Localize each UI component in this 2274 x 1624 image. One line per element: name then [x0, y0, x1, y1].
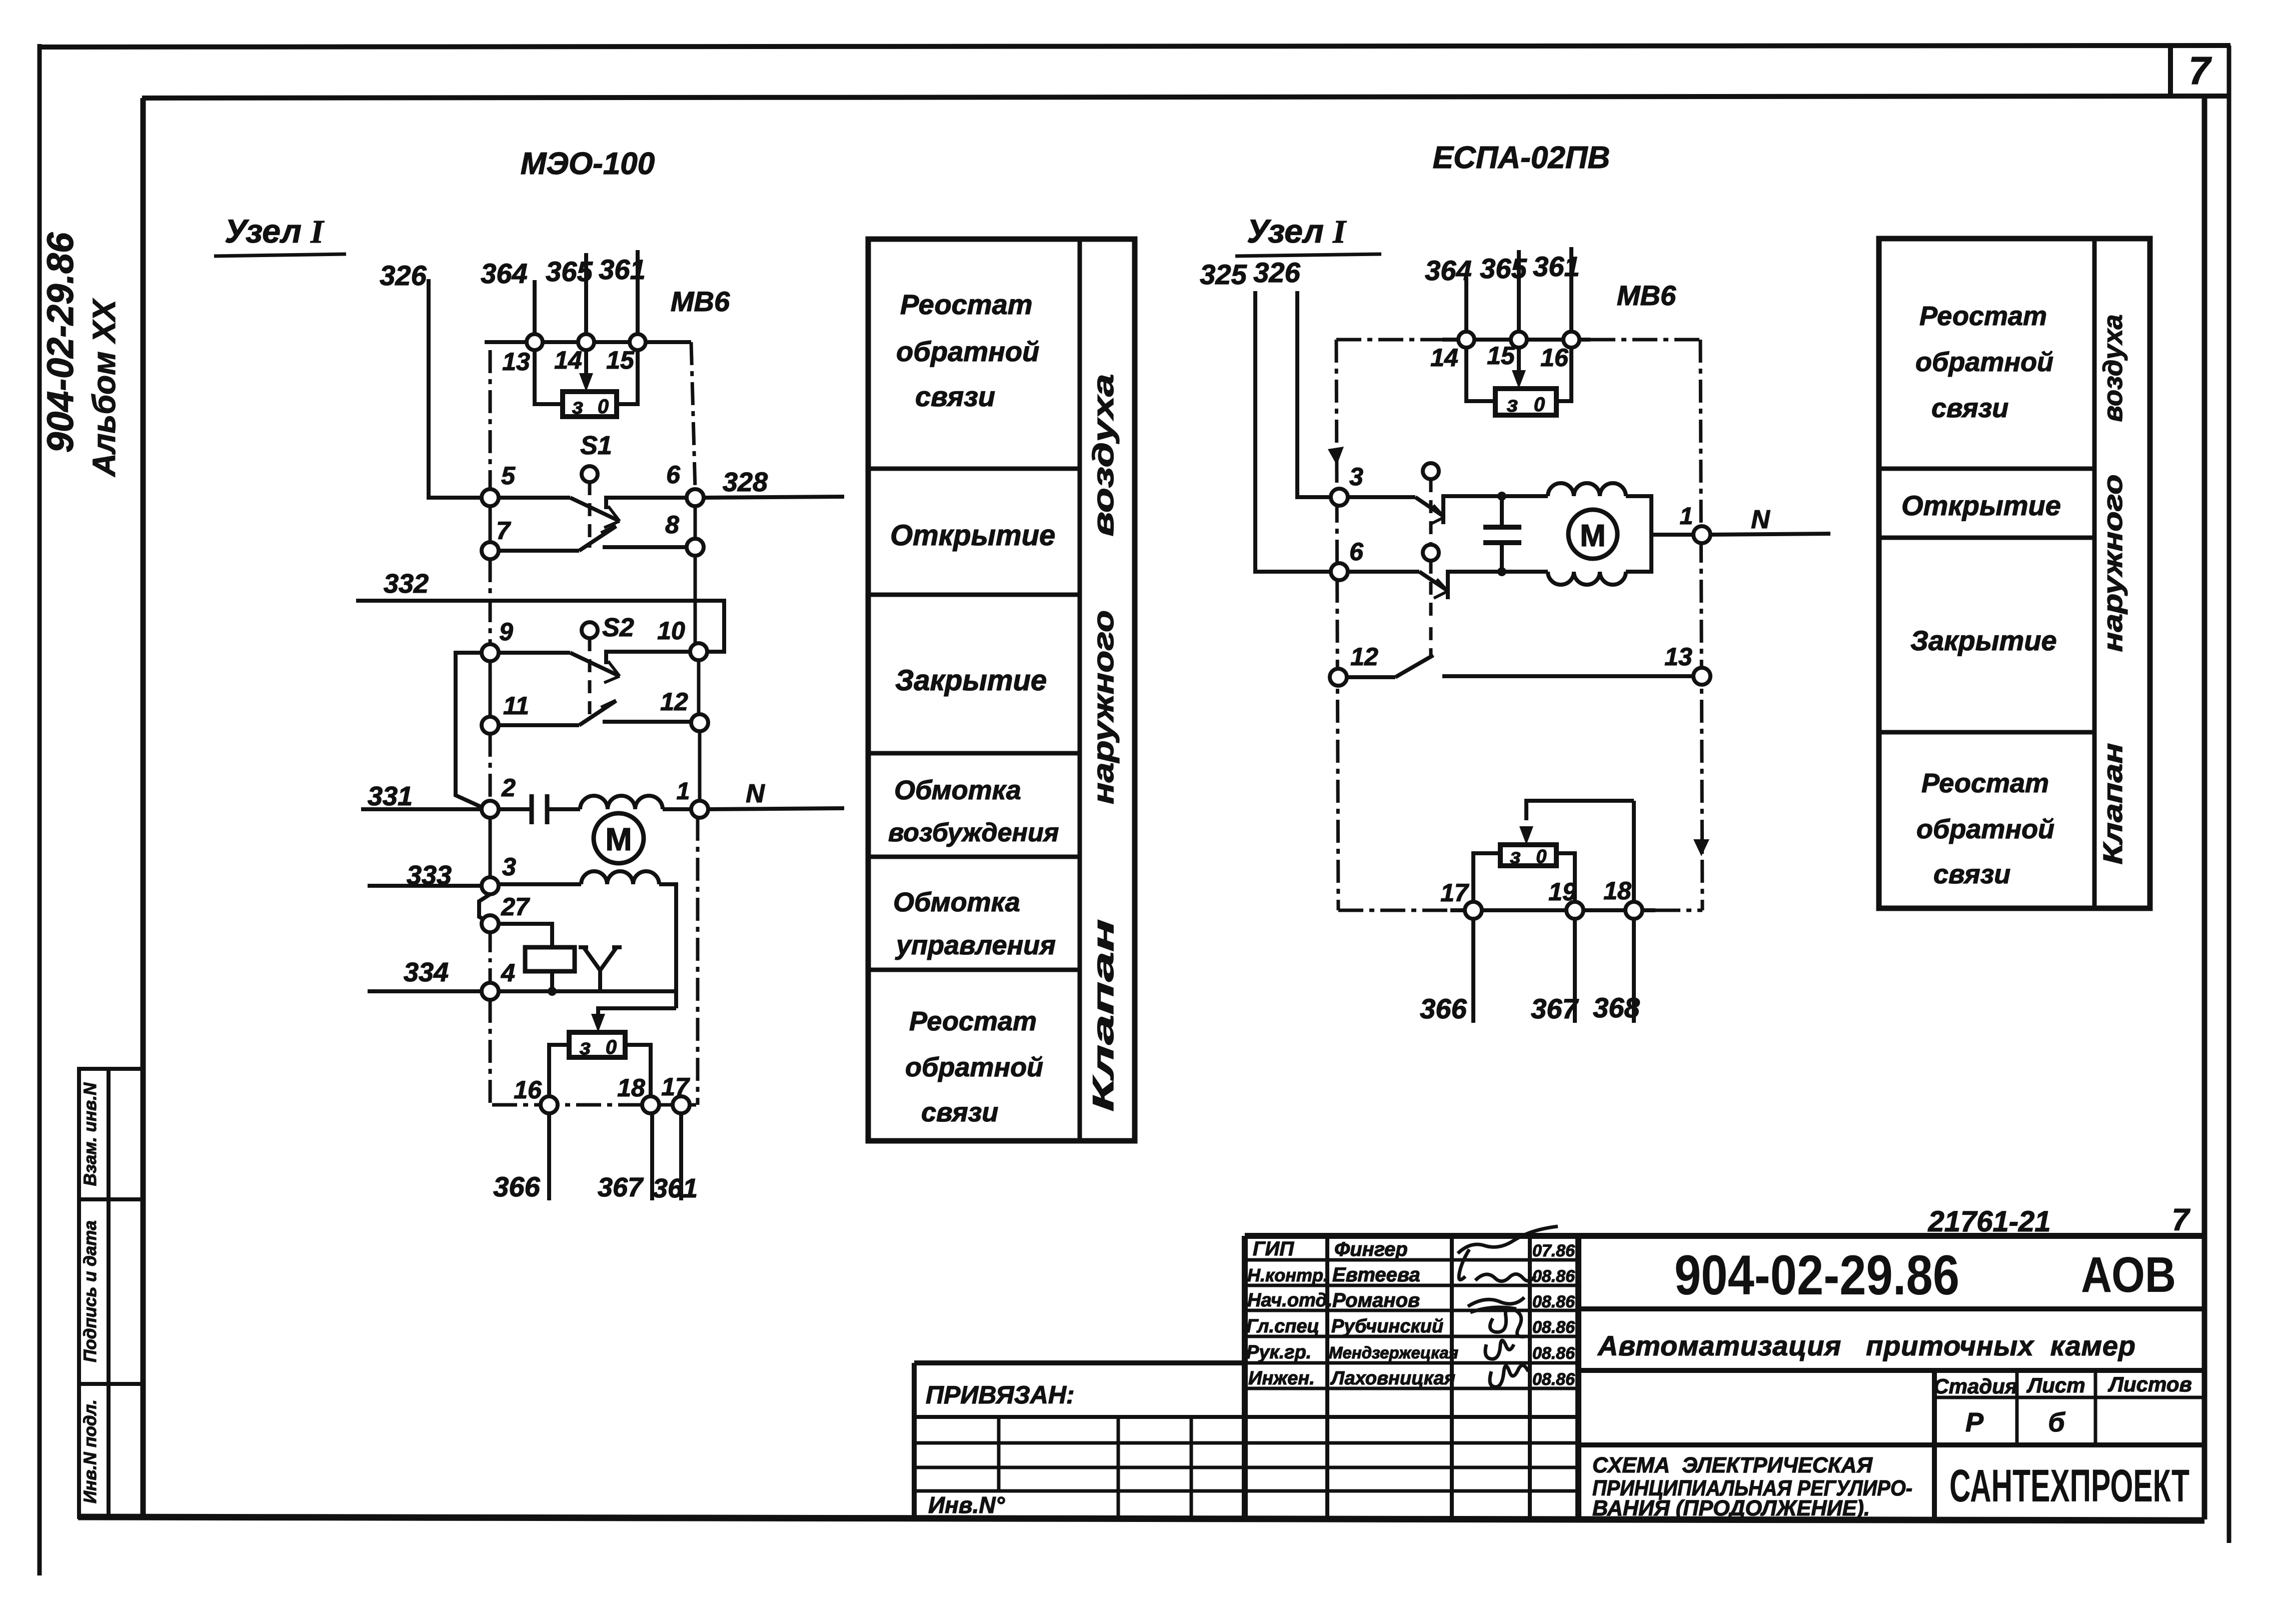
- svg-text:334: 334: [404, 957, 449, 987]
- left legend table frame: [868, 239, 1135, 1141]
- node 17: [673, 1096, 690, 1113]
- rheostat R3 feedback: [1495, 389, 1556, 415]
- sheet outer border top: [38, 46, 2230, 47]
- svg-text:331: 331: [368, 781, 413, 811]
- signature col dividers: [1325, 1236, 1329, 1518]
- capacitor C1: [499, 807, 532, 811]
- stadia row bottom: [1578, 1442, 2204, 1447]
- node 1: [691, 801, 708, 818]
- signature table left edge: [1242, 1236, 1248, 1518]
- tail wire 367r: [1573, 919, 1577, 1023]
- wire 361: [636, 250, 640, 335]
- svg-text:8: 8: [665, 511, 679, 539]
- sheet outer border right: [2227, 46, 2231, 1543]
- svg-text:Фингер: Фингер: [1334, 1238, 1408, 1260]
- svg-text:Мендзержецкая: Мендзержецкая: [1329, 1343, 1458, 1362]
- contact S1b blade: [579, 526, 616, 551]
- svg-text:Обмотка: Обмотка: [893, 887, 1020, 917]
- wire 328: [704, 497, 844, 498]
- svg-text:0: 0: [606, 1036, 617, 1058]
- wire 13 to rheostat R1: [535, 350, 563, 404]
- svg-text:1: 1: [677, 778, 690, 805]
- svg-text:Листов: Листов: [2107, 1372, 2192, 1396]
- inner frame left: [141, 98, 146, 1518]
- switch S1 head: [582, 466, 598, 482]
- svg-text:4: 4: [501, 959, 515, 987]
- svg-text:Инжен.: Инжен.: [1248, 1368, 1315, 1389]
- wire 331: [361, 807, 482, 811]
- jog wire 3 to 27: [479, 894, 490, 922]
- svg-text:Узел I: Узел I: [225, 213, 325, 250]
- enclosure right dash-dot: [1700, 340, 1702, 910]
- node 17r: [1465, 902, 1482, 919]
- terminal strip wire: [1442, 338, 1590, 342]
- wire 18r vertical: [1632, 801, 1636, 902]
- top branch wire: [1443, 494, 1548, 498]
- enclosure bottom dash-dot: [492, 1103, 696, 1107]
- svg-text:17: 17: [1440, 879, 1469, 907]
- wire 4 to winding loop: [499, 989, 676, 993]
- tail wire 368r: [1632, 919, 1636, 1023]
- svg-text:М: М: [1580, 519, 1606, 553]
- svg-text:12: 12: [1350, 643, 1378, 671]
- contact SB1c fixed wire to 13: [1442, 674, 1694, 678]
- svg-text:М: М: [605, 821, 632, 857]
- svg-text:3: 3: [502, 853, 516, 881]
- svg-text:Закрытие: Закрытие: [1910, 625, 2057, 656]
- svg-text:б: б: [2048, 1407, 2065, 1437]
- svg-text:332: 332: [384, 569, 429, 599]
- svg-text:Реостат: Реостат: [900, 289, 1033, 320]
- terminal 14r: [1458, 332, 1474, 348]
- svg-text:17: 17: [661, 1073, 690, 1101]
- svg-text:Альбом ХХ: Альбом ХХ: [86, 298, 122, 478]
- enclosure bottom wire: [1450, 908, 1655, 912]
- contact S2b wire from 11: [499, 723, 579, 727]
- terminal 15: [630, 334, 646, 350]
- wire 16r to rheostat R3: [1556, 348, 1571, 401]
- node 13r: [1693, 668, 1710, 685]
- privyazan left edge: [912, 1363, 917, 1518]
- wire node9 branch: [456, 653, 484, 808]
- wire N: [708, 808, 844, 809]
- svg-text:1: 1: [1680, 503, 1693, 530]
- wire N (right): [1710, 534, 1830, 535]
- node 19r: [1566, 902, 1583, 919]
- contact SB1a fixed: [1443, 496, 1504, 524]
- privyazan col dividers: [997, 1417, 1001, 1491]
- junction dot relay: [548, 987, 557, 996]
- contact S2b blade: [579, 701, 616, 725]
- svg-text:СХЕМА ЭЛЕКТРИЧЕСКАЯ: СХЕМА ЭЛЕКТРИЧЕСКАЯ: [1592, 1453, 1873, 1477]
- contact S1b wire from 7: [499, 549, 579, 553]
- svg-text:12: 12: [660, 688, 688, 716]
- svg-text:7: 7: [496, 517, 511, 545]
- contact SB1a wire: [1348, 495, 1415, 499]
- svg-text:з: з: [572, 394, 583, 419]
- svg-text:7: 7: [2172, 1203, 2190, 1237]
- svg-text:08.86: 08.86: [1532, 1318, 1575, 1337]
- svg-text:5: 5: [501, 462, 516, 490]
- svg-text:08.86: 08.86: [1532, 1267, 1575, 1286]
- right part divider: [1932, 1370, 1937, 1518]
- contact SB1b wire: [1348, 570, 1419, 574]
- svg-text:Р: Р: [1965, 1407, 1984, 1437]
- svg-text:0: 0: [1534, 394, 1545, 416]
- wire 14 wiper arrow: [584, 350, 588, 380]
- node 18r: [1625, 902, 1642, 919]
- svg-text:Лист: Лист: [2026, 1373, 2085, 1397]
- sheet outer border left: [38, 44, 42, 1575]
- node 18: [642, 1096, 659, 1113]
- svg-text:367: 367: [598, 1172, 644, 1202]
- node 12r: [1330, 669, 1347, 686]
- wire 365r: [1517, 250, 1521, 333]
- svg-text:19: 19: [1548, 878, 1576, 906]
- svg-text:325: 325: [1200, 259, 1247, 290]
- svg-text:11: 11: [503, 692, 529, 720]
- svg-text:10: 10: [657, 617, 685, 645]
- junction dot top: [1497, 492, 1506, 501]
- loop to node 1r: [1626, 496, 1651, 572]
- svg-text:2: 2: [501, 774, 516, 802]
- svg-text:366: 366: [493, 1171, 540, 1202]
- svg-text:Автоматизация приточных кам: Автоматизация приточных камер: [1597, 1330, 2135, 1361]
- contact SB1a blade: [1415, 497, 1443, 516]
- terminal 14: [578, 334, 594, 350]
- svg-text:15: 15: [606, 346, 635, 374]
- node 8: [687, 539, 704, 556]
- contact SB1b blade: [1419, 572, 1447, 590]
- field winding L1: [580, 796, 663, 809]
- wire 15r wiper arrow: [1517, 348, 1521, 377]
- wiper loop rheostat R4: [1526, 801, 1634, 820]
- contact S2a fixed: [606, 652, 691, 664]
- svg-text:Реостат: Реостат: [909, 1006, 1037, 1036]
- svg-text:Гл.спец: Гл.спец: [1246, 1316, 1319, 1337]
- svg-text:326: 326: [1253, 257, 1300, 288]
- contact S2a wire from 9: [499, 651, 570, 655]
- inner frame bottom: [78, 1517, 2204, 1520]
- wire 364r: [1464, 278, 1468, 333]
- svg-text:Открытие: Открытие: [1901, 490, 2061, 521]
- title block grid: [914, 1236, 2204, 1518]
- wire 17r to rheostat R4: [1473, 853, 1500, 902]
- contact SB1c wire: [1347, 675, 1395, 679]
- terminal strip dash-dot right: [1590, 338, 1700, 342]
- svg-text:Реостат: Реостат: [1919, 301, 2047, 331]
- svg-text:18: 18: [617, 1074, 645, 1102]
- svg-text:Клапан: Клапан: [1087, 919, 1120, 1112]
- svg-text:904-02-29.86: 904-02-29.86: [40, 232, 81, 453]
- underline of Узел I: [214, 254, 346, 256]
- wire 334: [368, 989, 482, 993]
- enclosure bottom dash-dot right: [1655, 909, 1702, 912]
- svg-text:Открытие: Открытие: [890, 519, 1055, 552]
- switch mid head SB1b: [1423, 545, 1439, 561]
- svg-text:з: з: [1507, 392, 1518, 417]
- node 6: [687, 489, 704, 506]
- svg-text:Рубчинский: Рубчинский: [1331, 1316, 1443, 1337]
- signature squiggles: [1458, 1226, 1558, 1387]
- svg-text:14: 14: [1430, 344, 1458, 372]
- svg-text:связи: связи: [921, 1097, 998, 1127]
- node 5: [482, 489, 499, 506]
- row under doc code: [1578, 1306, 2204, 1311]
- svg-text:328: 328: [723, 467, 768, 497]
- node 11: [482, 717, 499, 734]
- svg-text:16: 16: [1540, 344, 1569, 372]
- control winding L2: [499, 882, 581, 886]
- svg-text:САНТЕХПРОЕКТ: САНТЕХПРОЕКТ: [1949, 1460, 2189, 1511]
- junction dot bottom: [1497, 567, 1506, 576]
- svg-text:Клапан: Клапан: [2098, 743, 2128, 865]
- svg-text:08.86: 08.86: [1532, 1344, 1575, 1363]
- node 3r: [1331, 489, 1348, 506]
- svg-text:Лаховницкая: Лаховницкая: [1330, 1368, 1455, 1389]
- wire 333: [368, 884, 483, 888]
- svg-text:обратной: обратной: [1915, 347, 2053, 377]
- svg-text:N: N: [746, 779, 765, 808]
- contact SB1c blade: [1395, 655, 1433, 677]
- underline of Узел I (right): [1235, 254, 1381, 256]
- svg-text:ЕСПА-02ПВ: ЕСПА-02ПВ: [1433, 141, 1610, 175]
- contact S1b fixed: [603, 545, 687, 549]
- left axis dash-dot: [489, 350, 492, 489]
- wire 19r to rheostat R4: [1556, 853, 1575, 902]
- left vertical stamp box: [79, 1069, 143, 1517]
- contact S2b fixed: [603, 720, 692, 724]
- wiper loop to rheostat R2: [598, 1008, 676, 1023]
- svg-text:13: 13: [502, 348, 530, 376]
- switch S1 linkage: [588, 482, 592, 548]
- svg-text:воздуха: воздуха: [1087, 374, 1120, 537]
- wire 364: [533, 280, 537, 335]
- node 10: [690, 643, 707, 660]
- svg-text:S2: S2: [602, 613, 634, 642]
- svg-text:Евтеева: Евтеева: [1332, 1264, 1420, 1286]
- svg-text:18: 18: [1603, 877, 1631, 905]
- terminal strip wire: [485, 340, 691, 344]
- node 1r: [1693, 526, 1710, 543]
- left margin stamp texts: [40, 232, 122, 478]
- svg-text:Н.контр.: Н.контр.: [1247, 1265, 1328, 1285]
- rheostat R1 feedback: [563, 392, 617, 417]
- terminal 13: [527, 334, 543, 350]
- svg-text:367: 367: [1531, 993, 1579, 1024]
- wire 325: [1255, 291, 1330, 572]
- wire 16 to rheostat R2: [549, 1045, 569, 1097]
- relay coil K1: [525, 947, 575, 971]
- svg-text:МВ6: МВ6: [671, 286, 730, 317]
- svg-text:Нач.отд.: Нач.отд.: [1247, 1290, 1332, 1311]
- wire 15 to rheostat R1: [617, 350, 638, 404]
- wire 326: [429, 279, 484, 498]
- svg-text:связи: связи: [915, 381, 995, 412]
- svg-text:9: 9: [499, 618, 513, 646]
- svg-text:364: 364: [481, 258, 527, 289]
- contact S1a fixed: [606, 498, 688, 509]
- svg-text:ГИП: ГИП: [1253, 1238, 1294, 1260]
- terminal 16r: [1563, 332, 1579, 348]
- node 4: [482, 983, 499, 1000]
- tail wire 366: [547, 1113, 551, 1200]
- svg-text:наружного: наружного: [2098, 475, 2128, 652]
- svg-text:связи: связи: [1931, 393, 2008, 423]
- motor M1: [594, 813, 644, 863]
- svg-text:Реостат: Реостат: [1921, 768, 2049, 798]
- capacitor C2: [1500, 496, 1504, 526]
- svg-text:08.86: 08.86: [1532, 1370, 1575, 1389]
- winding L4 bottom: [1548, 572, 1626, 585]
- wire 14r to rheostat R3: [1466, 348, 1495, 401]
- svg-text:N: N: [1751, 505, 1770, 534]
- svg-text:АОВ: АОВ: [2081, 1247, 2176, 1303]
- main top line: [1245, 1233, 2204, 1239]
- svg-text:связи: связи: [1933, 859, 2010, 889]
- svg-text:13: 13: [1664, 643, 1692, 671]
- switch head SB1: [1423, 463, 1439, 479]
- switch S2 head: [582, 622, 598, 638]
- svg-text:Рук.гр.: Рук.гр.: [1246, 1342, 1311, 1363]
- svg-text:обратной: обратной: [896, 336, 1039, 367]
- svg-text:S1: S1: [580, 431, 612, 460]
- contact S1a blade: [570, 498, 619, 521]
- svg-text:Обмотка: Обмотка: [894, 775, 1021, 805]
- enclosure left dash-dot: [1336, 340, 1338, 910]
- wire 326r: [1297, 291, 1331, 497]
- svg-text:904-02-29.86: 904-02-29.86: [1674, 1244, 1959, 1306]
- svg-text:07.86: 07.86: [1532, 1241, 1575, 1260]
- svg-text:366: 366: [1420, 993, 1467, 1024]
- svg-text:16: 16: [514, 1076, 542, 1104]
- svg-text:ПРИВЯЗАН:: ПРИВЯЗАН:: [926, 1381, 1075, 1409]
- arrow on left boundary: [1328, 447, 1344, 465]
- node 16: [541, 1096, 558, 1113]
- wire 361r: [1569, 247, 1573, 333]
- enclosure bottom dash-dot left: [1338, 909, 1450, 912]
- svg-text:368: 368: [1593, 992, 1640, 1023]
- terminal 15r: [1511, 332, 1527, 348]
- tail wire 367: [650, 1113, 654, 1200]
- row under name: [1578, 1368, 2204, 1373]
- node 6r: [1331, 563, 1348, 580]
- svg-text:наружного: наружного: [1087, 610, 1120, 804]
- svg-text:15: 15: [1487, 342, 1515, 370]
- svg-text:Закрытие: Закрытие: [895, 664, 1047, 697]
- node 3: [482, 877, 499, 894]
- svg-text:з: з: [1510, 844, 1520, 868]
- svg-text:Подпись и дата: Подпись и дата: [81, 1220, 100, 1362]
- svg-text:0: 0: [598, 396, 609, 418]
- svg-text:Инв.N подл.: Инв.N подл.: [81, 1399, 100, 1503]
- contact S2a blade: [570, 653, 619, 676]
- svg-text:6: 6: [1349, 538, 1364, 566]
- svg-text:обратной: обратной: [1916, 814, 2054, 844]
- svg-text:з: з: [580, 1035, 591, 1059]
- wire 18 to rheostat R2: [625, 1045, 651, 1097]
- stadia header underline: [1934, 1396, 2204, 1399]
- wire 365: [584, 253, 588, 335]
- signature row lines: [1245, 1258, 1578, 1262]
- sheet number box divider: [2168, 46, 2173, 98]
- svg-text:ВАНИЯ (ПРОДОЛЖЕНИЕ).: ВАНИЯ (ПРОДОЛЖЕНИЕ).: [1592, 1496, 1870, 1520]
- svg-text:326: 326: [380, 260, 427, 291]
- svg-text:обратной: обратной: [905, 1052, 1043, 1082]
- wire 332: [356, 601, 724, 652]
- svg-text:6: 6: [666, 461, 681, 489]
- node 2: [482, 801, 499, 818]
- privyazan row lines: [914, 1415, 1578, 1419]
- right legend table frame: [1879, 239, 2150, 908]
- svg-text:361: 361: [653, 1173, 698, 1203]
- node 7: [482, 542, 499, 559]
- motor M2: [1568, 510, 1617, 559]
- switch S2 linkage: [588, 638, 592, 720]
- svg-text:0: 0: [1536, 846, 1546, 867]
- contact S1a wire from 5: [499, 496, 570, 500]
- tail wire 361b: [679, 1113, 683, 1200]
- top band bottom line: [142, 96, 2229, 98]
- svg-text:воздуха: воздуха: [2098, 315, 2128, 422]
- svg-text:14: 14: [554, 346, 582, 374]
- right axis dash-dot: [691, 342, 695, 489]
- winding L3 top: [1548, 483, 1626, 496]
- node 9: [482, 644, 499, 661]
- svg-text:МВ6: МВ6: [1617, 280, 1676, 311]
- svg-text:7: 7: [2188, 49, 2212, 93]
- brake Y symbol: [579, 947, 622, 991]
- svg-text:Взам. инв.N: Взам. инв.N: [81, 1082, 100, 1186]
- svg-text:3: 3: [1349, 463, 1363, 491]
- svg-text:возбуждения: возбуждения: [888, 818, 1059, 847]
- inner frame right: [2202, 96, 2207, 1519]
- node 27: [482, 915, 499, 932]
- svg-text:Инв.N°: Инв.N°: [928, 1492, 1005, 1518]
- privyazan box top: [914, 1360, 1245, 1365]
- switch linkage SB1: [1429, 479, 1433, 545]
- svg-text:08.86: 08.86: [1532, 1292, 1575, 1311]
- stadia col dividers: [2015, 1370, 2019, 1445]
- svg-text:Узел I: Узел I: [1247, 213, 1347, 250]
- svg-text:управления: управления: [895, 930, 1056, 960]
- rheostat R2 feedback: [569, 1032, 625, 1057]
- tail wire 366r: [1471, 919, 1475, 1023]
- node 12: [691, 714, 708, 731]
- wire 27 to relay: [499, 924, 552, 947]
- contact SB1b fixed: [1448, 572, 1548, 599]
- svg-text:27: 27: [501, 893, 530, 921]
- terminal strip dash-dot left: [1336, 338, 1442, 342]
- svg-text:МЭО-100: МЭО-100: [521, 147, 655, 181]
- rheostat R4 feedback: [1500, 845, 1556, 866]
- arrow on right boundary: [1693, 839, 1709, 856]
- svg-text:Стадия: Стадия: [1933, 1374, 2017, 1398]
- svg-text:Романов: Романов: [1332, 1289, 1420, 1311]
